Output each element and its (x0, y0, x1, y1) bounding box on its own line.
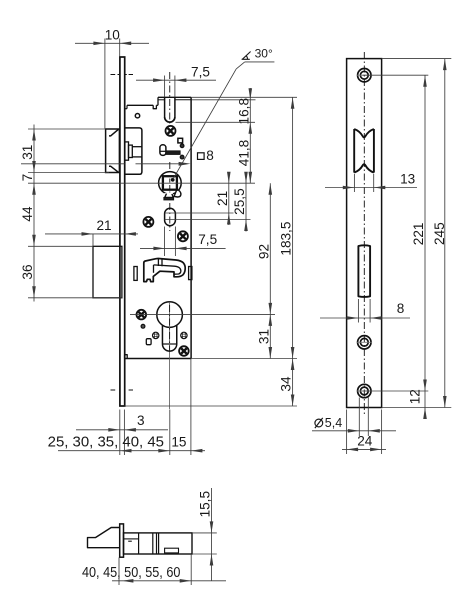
svg-text:221: 221 (411, 223, 426, 246)
svg-text:16,8: 16,8 (236, 98, 251, 124)
svg-text:40, 45, 50, 55, 60: 40, 45, 50, 55, 60 (82, 565, 180, 581)
svg-text:30°: 30° (255, 47, 273, 61)
svg-text:92: 92 (256, 244, 271, 259)
svg-text:36: 36 (20, 264, 35, 279)
svg-text:7,5: 7,5 (198, 232, 217, 247)
svg-text:183,5: 183,5 (279, 222, 294, 256)
svg-text:12: 12 (408, 389, 423, 404)
svg-text:25, 30, 35, 40, 45: 25, 30, 35, 40, 45 (48, 434, 164, 450)
svg-text:34: 34 (279, 376, 294, 392)
svg-text:25,5: 25,5 (232, 188, 247, 214)
svg-text:21: 21 (215, 191, 230, 206)
svg-text:245: 245 (432, 222, 447, 245)
svg-text:8: 8 (206, 148, 214, 163)
svg-text:15: 15 (171, 435, 186, 450)
svg-text:13: 13 (400, 172, 415, 187)
svg-text:24: 24 (357, 434, 373, 449)
svg-text:21: 21 (96, 218, 111, 233)
svg-text:8: 8 (397, 301, 405, 316)
svg-text:3: 3 (137, 413, 145, 428)
svg-text:31: 31 (20, 145, 35, 160)
svg-text:7,5: 7,5 (191, 65, 210, 80)
svg-text:10: 10 (105, 28, 121, 43)
svg-text:15,5: 15,5 (198, 491, 213, 517)
svg-text:7: 7 (20, 174, 35, 182)
svg-text:5,4: 5,4 (325, 416, 342, 430)
svg-text:41,8: 41,8 (236, 140, 251, 166)
svg-text:44: 44 (20, 206, 35, 222)
svg-text:31: 31 (256, 329, 271, 344)
